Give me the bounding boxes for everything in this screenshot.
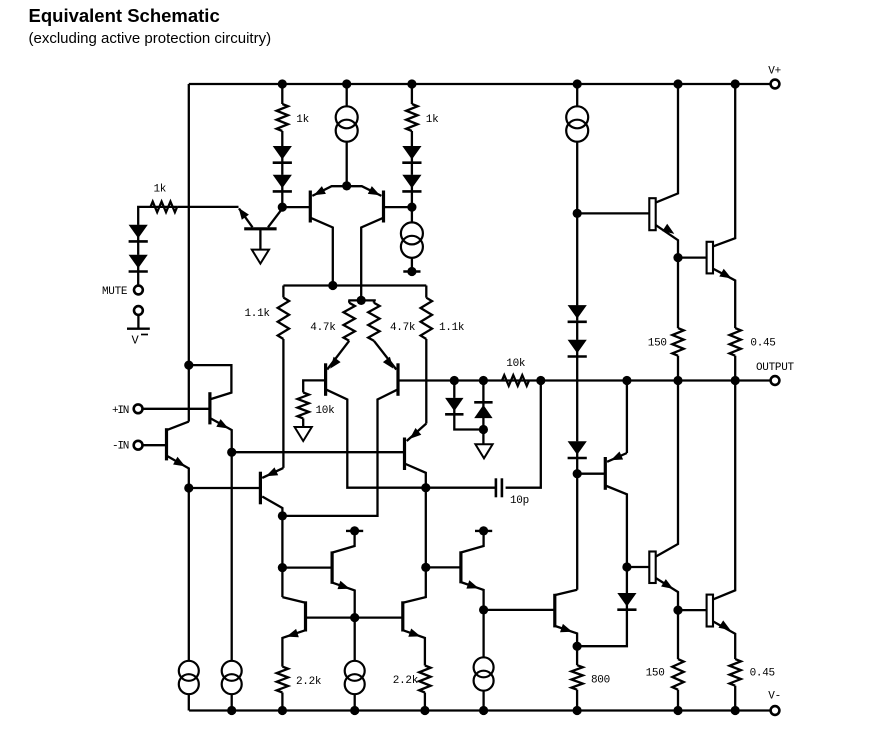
node: Q4 emitter junction	[184, 483, 193, 492]
wire: D2 to mute node	[281, 191, 283, 207]
node output line x=627	[622, 376, 631, 385]
QO2 emitter	[713, 269, 735, 329]
diode D4	[402, 175, 421, 192]
QB4 collector	[403, 567, 426, 602]
node on V- rail x=735	[731, 706, 740, 715]
svg-text:1k: 1k	[296, 114, 309, 126]
transistor Q3 bar	[208, 392, 211, 424]
wire: 1k mute to QM emitter	[177, 206, 238, 208]
wire: Q3 emitter to T3R base	[232, 451, 405, 453]
node output line x=735	[731, 376, 740, 385]
wire: -IN to Q4 base	[143, 444, 167, 446]
Q3 emitter	[210, 418, 232, 452]
node on V+ rail at x=411.9	[407, 79, 416, 88]
wire: output rail	[398, 379, 771, 381]
diode D2	[273, 175, 292, 192]
QB1 emitter	[332, 581, 355, 618]
node on V- rail x=425	[420, 706, 429, 715]
wire: mute corner	[138, 207, 177, 225]
transistor QO2 (boxed)	[707, 242, 713, 274]
resistor 1k (left bias)	[277, 104, 310, 131]
wire: 2.2k right to V- rail	[424, 693, 426, 711]
node output line x=454	[450, 376, 459, 385]
wire D7-D8	[576, 320, 578, 339]
wire: 1.1k top bus	[283, 284, 426, 286]
ground (10k)	[295, 427, 312, 441]
wire: QB1 emitter to I6	[354, 618, 356, 661]
diode D9	[568, 441, 587, 458]
diode D1	[273, 146, 292, 163]
svg-text:1.1k: 1.1k	[245, 308, 271, 320]
svg-text:V: V	[132, 334, 140, 348]
QB1 collector	[332, 533, 355, 553]
Q2 base wire	[384, 206, 412, 208]
terminal +IN	[112, 404, 143, 416]
stub node above QB1	[346, 526, 363, 535]
QO1 base wire	[577, 212, 649, 214]
QM collector	[268, 209, 282, 228]
transistor QB2 bar	[459, 551, 462, 583]
node: compensation node	[421, 483, 430, 492]
wire: 800 to V- rail	[576, 690, 578, 711]
QB3 emitter	[282, 629, 305, 667]
wire D3-D4	[411, 163, 413, 175]
node: Q1 collector junction	[328, 281, 337, 290]
QO4 collector	[713, 381, 735, 600]
wire: Q4 emitter to T2M base	[189, 487, 261, 489]
wire: D10 to QB5 emitter node	[577, 609, 627, 646]
Q4 collector	[167, 422, 189, 431]
node on V+ rail at x=346.7	[342, 79, 351, 88]
resistor 10k (feedback, horizontal)	[502, 358, 529, 386]
Q4 emitter	[167, 456, 189, 488]
Q2 emitter	[347, 186, 382, 196]
wire: V+ to resistor 1k (left)	[281, 84, 283, 104]
transistor QO4 (boxed)	[707, 595, 713, 627]
stub node above QB2	[475, 526, 492, 535]
node: QB1 base junction	[278, 563, 287, 572]
resistor 1.1k (right)	[421, 286, 465, 340]
svg-text:10p: 10p	[510, 495, 529, 507]
wire: QB5 emitter to 800	[576, 646, 578, 665]
node on V+ rail at x=735	[731, 79, 740, 88]
current source I5	[566, 106, 588, 141]
node: QO1 base junction	[573, 209, 582, 218]
diode DM1	[129, 225, 148, 242]
label 1k (mute resistor)	[154, 184, 167, 196]
QO2 collector	[713, 84, 735, 246]
svg-text:OUTPUT: OUTPUT	[756, 362, 795, 374]
Q1 emitter	[312, 186, 346, 196]
resistor 2.2k (right)	[393, 666, 431, 693]
wire: 0.45 lower to V- rail	[734, 686, 736, 711]
wire: Q3 emitter down to I4	[231, 452, 233, 661]
terminal V- reference below MUTE	[127, 306, 150, 347]
terminal MUTE	[102, 286, 143, 298]
resistor 150 (lower)	[646, 659, 684, 690]
T2L emitter from 4.7k	[327, 341, 349, 370]
diode D8	[568, 340, 587, 357]
wire: I3 to V- rail	[188, 695, 190, 711]
node output line x=483	[479, 376, 488, 385]
ground (clamp)	[475, 444, 492, 458]
diode D5	[445, 398, 463, 415]
T2M emitter	[262, 467, 283, 478]
T2L base wire	[303, 380, 326, 392]
svg-text:MUTE: MUTE	[102, 286, 128, 298]
transistor Q4 bar	[165, 428, 168, 460]
transistor QD bar	[604, 457, 607, 490]
QB5 collector	[555, 590, 577, 595]
svg-text:10k: 10k	[506, 358, 526, 370]
wire: I5 to QO1 base node	[576, 142, 578, 214]
wire: V+ to current source I1	[346, 84, 348, 107]
node on V- rail x=678	[673, 706, 682, 715]
resistor 4.7k (right)	[368, 300, 416, 340]
wire: comp node down to QB2 base	[425, 488, 427, 568]
T2R emitter from 4.7k	[374, 341, 396, 370]
Q2 collector	[361, 218, 383, 301]
diode D7	[568, 305, 587, 322]
wire D1-D2	[281, 163, 283, 175]
QB5 base wire	[484, 609, 555, 611]
wire: I7 to V- rail	[482, 691, 484, 711]
wire: 1.1k right to T3R emitter	[425, 339, 427, 424]
QB2 collector	[461, 533, 484, 553]
QO3 collector	[656, 381, 678, 557]
node: QB5 emitter junction	[573, 642, 582, 651]
terminal V+	[768, 66, 781, 89]
QO4 base wire	[678, 609, 707, 611]
transistor QB1 bar	[331, 551, 334, 583]
transistor T2R bar	[396, 363, 399, 396]
node: diff pair emitter	[342, 181, 351, 190]
terminal V-	[768, 691, 781, 715]
terminal OUTPUT	[756, 362, 795, 385]
wire: D8 across output rail to D9	[576, 357, 578, 442]
wire: +IN to Q3 base	[143, 408, 210, 410]
svg-text:V+: V+	[768, 66, 781, 78]
svg-text:800: 800	[591, 675, 610, 687]
current source I7	[474, 657, 494, 690]
diode DM2	[129, 255, 148, 272]
QB4 emitter	[403, 629, 425, 666]
transistor QB4 bar	[401, 601, 404, 631]
diode D10	[617, 593, 636, 610]
QM base to ground	[259, 229, 261, 250]
wire: clamp to ground	[482, 430, 484, 445]
node: QO3 base junction	[622, 562, 631, 571]
T2L collector	[326, 389, 426, 487]
node on V+ rail at x=678	[673, 79, 682, 88]
current source I6	[345, 661, 365, 694]
node: QD base junction	[573, 469, 582, 478]
wire: D4 to Q2 base node	[411, 191, 413, 207]
resistor 1k (mute)	[151, 202, 178, 213]
wire: D5 to clamp bottom	[454, 415, 483, 430]
wire: 2.2k left to V- rail	[281, 693, 283, 711]
QB5 emitter	[555, 624, 577, 646]
wire: QO1 base node to diodes	[576, 213, 578, 305]
wire: 0.45 to output rail	[734, 356, 736, 381]
QB2 base wire	[426, 566, 461, 568]
resistor 1k (right bias)	[406, 104, 439, 131]
transistor QM bar	[244, 227, 276, 230]
QO2 base wire	[678, 256, 707, 258]
transistor QO3 (boxed)	[649, 552, 655, 584]
QO3 base wire	[627, 566, 649, 568]
resistor 0.45 (lower)	[730, 659, 775, 686]
node: QO3 emitter junction	[673, 606, 682, 615]
node: left rail / +IN collector branch	[184, 361, 193, 370]
QD emitter	[607, 381, 627, 462]
resistor 1.1k (left)	[245, 286, 290, 340]
svg-text:10k: 10k	[316, 405, 336, 417]
ground (QM base)	[252, 250, 269, 264]
QB4 base wire	[355, 616, 403, 618]
svg-text:-IN: -IN	[112, 440, 129, 452]
node: T2M collector junction	[278, 511, 287, 520]
wire: V+ to current source I5	[576, 84, 578, 107]
wire: 1.1k left to T2M emitter	[282, 339, 284, 468]
QB3 collector	[282, 597, 305, 603]
T2R collector	[282, 389, 398, 516]
svg-text:2.2k: 2.2k	[393, 675, 419, 687]
resistor 0.45 (upper)	[730, 328, 776, 356]
wire: to clamp diode D6	[482, 381, 484, 403]
svg-text:4.7k: 4.7k	[310, 322, 336, 334]
Q1 collector	[310, 218, 333, 286]
wire: 150 lower to V- rail	[677, 690, 679, 711]
transistor QB3 bar	[304, 601, 307, 631]
wire: 10k to ground	[302, 418, 304, 427]
node: QB1 emitter junction	[350, 613, 359, 622]
current source I2	[401, 222, 423, 257]
svg-text:150: 150	[648, 337, 667, 349]
wire: I2 to stub	[411, 258, 413, 272]
svg-text:4.7k: 4.7k	[390, 322, 416, 334]
capacitor C1 10p	[496, 478, 529, 507]
wire: 1k to diodes	[411, 131, 413, 146]
QO1 collector	[656, 84, 678, 203]
transistor T3R bar	[403, 438, 406, 471]
stub node below I2	[403, 267, 420, 276]
T2M collector	[262, 497, 282, 516]
QB3 base wire	[306, 616, 355, 618]
transistor Q1 bar	[309, 191, 312, 223]
transistor QO1 (boxed)	[649, 198, 655, 230]
node on V- rail x=282	[278, 706, 287, 715]
svg-text:150: 150	[646, 667, 665, 679]
QB1 base wire	[282, 566, 332, 568]
wire: D9 to QD base node	[576, 458, 578, 474]
svg-text:1.1k: 1.1k	[439, 322, 465, 334]
resistor 4.7k (left)	[310, 300, 355, 340]
svg-text:+IN: +IN	[112, 405, 129, 417]
wire: V+ top rail	[189, 83, 771, 85]
node: QB2 base junction	[421, 563, 430, 572]
wire: DM2 to MUTE terminal	[137, 272, 139, 285]
node on V- rail x=484	[479, 706, 488, 715]
transistor T2L bar	[324, 363, 327, 396]
resistor 800	[571, 665, 610, 690]
wire: QD base node down to QB5 collector	[576, 474, 578, 590]
node: clamp diode bottom	[479, 425, 488, 434]
svg-text:0.45: 0.45	[750, 337, 775, 349]
wire: QO1 emitter to 150	[677, 258, 679, 329]
node: Q2 base bias	[407, 203, 416, 212]
current source I4	[222, 661, 242, 694]
wire: D6 to clamp bottom	[482, 419, 484, 430]
wire: I4 to V- rail	[231, 695, 233, 711]
node: 4.7k common top	[348, 296, 376, 305]
wire: QO3 emitter to 150 lower	[677, 610, 679, 659]
wire: comp node to capacitor	[426, 487, 497, 489]
wire: 150 to output rail	[677, 356, 679, 381]
node on V+ rail at x=282	[278, 79, 287, 88]
node A (mute clamp node)	[278, 203, 287, 212]
QM emitter	[239, 208, 253, 227]
wire: capacitor to output line	[506, 381, 541, 488]
resistor 2.2k (left)	[277, 667, 322, 693]
diode D3	[402, 146, 421, 163]
wire: V- bottom rail	[189, 709, 771, 711]
Q3 collector	[189, 365, 232, 399]
wire: left rail	[188, 84, 190, 422]
QD base wire	[577, 473, 605, 475]
svg-text:V-: V-	[768, 691, 781, 703]
QO3 emitter	[656, 578, 678, 610]
transistor QB5 bar	[553, 594, 556, 628]
node output line x=678	[673, 376, 682, 385]
resistor 10k (T2L base)	[298, 393, 336, 419]
svg-text:1k: 1k	[426, 114, 439, 126]
Q1 base wire	[282, 206, 310, 208]
node output line x=541	[536, 376, 545, 385]
terminal -IN	[112, 440, 143, 452]
QO4 emitter	[713, 620, 735, 659]
wire: down to QB1 base node	[281, 516, 283, 568]
QB2 emitter	[461, 580, 484, 610]
node: QO1 emitter junction	[673, 253, 682, 262]
wire: 1k to diode pair	[281, 131, 283, 146]
node: QB2 emitter junction	[479, 605, 488, 614]
wire: down to diode D10	[626, 567, 628, 593]
svg-text:2.2k: 2.2k	[296, 676, 322, 688]
node on V- rail x=232	[227, 706, 236, 715]
wire: I6 to V- rail	[354, 695, 356, 711]
QD collector	[605, 486, 627, 568]
T3R collector	[405, 464, 426, 488]
node: Q3 emitter junction	[227, 448, 236, 457]
node on V+ rail at x=577	[573, 79, 582, 88]
transistor T2M bar	[259, 472, 262, 505]
wire: Q4 emitter down to I3	[188, 488, 190, 661]
wire: to clamp diode D5	[453, 381, 455, 398]
node on V- rail x=577	[573, 706, 582, 715]
wire: QB2 emitter to I7	[482, 610, 484, 657]
svg-text:1k: 1k	[154, 184, 167, 196]
transistor Q2 bar	[382, 191, 385, 223]
QO1 emitter	[656, 224, 678, 258]
wire DM1-DM2	[137, 242, 139, 255]
diode D6	[474, 402, 492, 419]
wire: I1 to pair emitters	[346, 142, 348, 186]
wire: down to QB3 collector	[281, 568, 283, 598]
wire: node to current source I2	[411, 207, 413, 223]
current source I1	[336, 106, 358, 141]
T3R emitter	[407, 424, 427, 442]
wire: V+ to resistor 1k (right)	[411, 84, 413, 104]
resistor 150 (upper)	[648, 328, 684, 356]
current source I3	[179, 661, 199, 694]
svg-text:0.45: 0.45	[750, 667, 775, 679]
node on V- rail x=355	[350, 706, 359, 715]
